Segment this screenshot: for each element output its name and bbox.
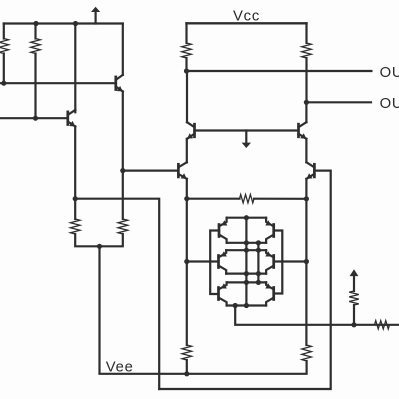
wire Q2 collector to rail <box>74 24 76 113</box>
wire Q5-Q6 base bus (y=130.5) <box>195 129 299 131</box>
wire QB base rail (right, x=282.3) <box>274 231 283 294</box>
wire R9 bottom corner to Vee rail <box>100 361 307 374</box>
wire block center vertical (x=246.4) <box>245 218 247 306</box>
node tail junction <box>97 244 102 249</box>
transistor Q3 <box>177 164 180 177</box>
resistor R7 (x=186.8) <box>182 345 192 360</box>
wire ML base to left branch (y=261.5) <box>187 260 219 262</box>
node junction OUT2 <box>184 68 189 73</box>
node junction block top center <box>244 215 249 220</box>
node junction row2 emitter right <box>256 248 261 253</box>
node junction bias row / R10 <box>351 322 356 327</box>
wire block bottom (collectors row3) <box>227 304 267 306</box>
resistor R8 (horizontal) <box>240 195 255 203</box>
wire block top (emitters row1) <box>227 217 267 219</box>
wire R7 bottom to Vee rail <box>186 360 188 374</box>
wire left loop (Q2 emitter to bottom loop) <box>75 199 159 389</box>
resistor R3 (x=75.2) <box>70 219 80 234</box>
resistor R4 (x=122.8) <box>118 219 128 234</box>
wire Q6 emitter to Q7 collector <box>305 139 307 163</box>
transistor Q1 <box>114 77 117 90</box>
transistor QC (middle-left of block) <box>217 256 220 268</box>
node junction R1/input wire <box>1 81 6 86</box>
wire Q3 base (y=170.6) <box>123 170 179 172</box>
wire emitters row2 (y=250.2) <box>226 249 266 251</box>
bias arrow (down) on base bus <box>245 131 247 143</box>
node junction row2 collector left <box>244 271 249 276</box>
resistor R6 (right load) <box>305 23 307 43</box>
node junction Q2 collector on rail <box>73 21 78 26</box>
node junction row3 emitter left <box>244 280 249 285</box>
resistor R1 (left, x=3.8) <box>3 24 5 39</box>
node junction Q1 emitter / Q3 base wire <box>120 168 125 173</box>
node junction row3 emitter right <box>256 280 261 285</box>
node junction R7 on Vee rail <box>184 371 189 376</box>
wire Q7 base to right loop <box>159 171 331 389</box>
transistor Q7 (mirrored) <box>313 164 316 177</box>
wire Vcc rail <box>187 22 307 24</box>
wire top-left supply rail <box>4 22 123 24</box>
wire Q2 emitter down <box>74 126 76 219</box>
transistor Q6 <box>297 124 300 137</box>
wire Q3 emitter down left branch <box>186 179 188 345</box>
wire QA base rail (left, x=210.2) <box>210 231 219 295</box>
wire OUT2 (y=71) <box>187 70 372 72</box>
wire Q1 emitter down <box>122 92 124 220</box>
wire R3 bottom to tail node <box>75 234 99 246</box>
svg-text:Vcc: Vcc <box>233 8 260 24</box>
node junction on left branch at y=261.5 <box>184 259 189 264</box>
wire block second vertical (x=258.4) <box>257 243 259 283</box>
wire R4 bottom to tail node <box>100 234 123 246</box>
power arrow (up) at R10 <box>350 269 359 276</box>
wire input A (y=83) <box>0 82 116 84</box>
power arrow (up) on top-left rail <box>94 12 96 24</box>
wire OUT1 (y=102) <box>306 101 371 103</box>
node junction R2 top on rail <box>33 21 38 26</box>
wire input B (y=118) <box>0 117 68 119</box>
node junction right branch y=261.5 <box>304 259 309 264</box>
transistor QD (middle-right of block) <box>272 256 275 268</box>
node junction right branch y=199 <box>304 196 309 201</box>
wire Q3 collector to Q5 emitter <box>186 139 188 163</box>
node junction block bottom center <box>244 303 249 308</box>
transistor QE (bottom-left of block) <box>217 288 220 300</box>
resistor R10 (x=354) <box>353 305 355 325</box>
node junction on left branch at y=199 <box>184 196 189 201</box>
transistor Q5 (mirrored) <box>193 124 196 137</box>
transistor Q2 <box>66 112 69 125</box>
wire collectors row2 (y=273.6) <box>226 273 266 275</box>
node junction row1 collector right <box>256 240 261 245</box>
wire emitters row3 (y=282.4) <box>227 281 267 283</box>
wire R8 row (y=198.7) left part <box>187 198 240 200</box>
wire R8 row right part <box>254 198 306 200</box>
wire Q6 collector riser <box>305 102 307 122</box>
node junction OUT1 <box>304 100 309 105</box>
node junction block bottom left <box>233 303 238 308</box>
transistor QB (top-right of block) <box>272 225 275 237</box>
wire Q5 collector riser to OUT node <box>186 71 188 122</box>
resistor R11 (horizontal, y=324.8) <box>375 321 390 329</box>
wire collectors row1 (y=242.8) <box>227 242 267 244</box>
wire block output to bias row <box>235 306 399 325</box>
svg-text:OUT: OUT <box>380 65 399 81</box>
node junction row2 emitter left <box>244 248 249 253</box>
wire Q1 collector riser <box>122 24 124 75</box>
wire tail node to Vee rail <box>98 246 100 372</box>
node junction Q2 emitter / loop wire <box>73 196 78 201</box>
transistor QF (bottom-right of block) <box>272 288 275 300</box>
wire MR base to right branch (y=261.5) <box>274 260 307 262</box>
transistor QA (top-left of block) <box>218 225 221 237</box>
svg-text:OUT: OUT <box>380 96 399 112</box>
node junction row1 collector left <box>244 240 249 245</box>
resistor R9 (x=306.6) <box>302 345 312 361</box>
svg-text:Vee: Vee <box>106 359 134 375</box>
resistor R2 (x=35.5) <box>34 24 36 39</box>
node junction R2 bottom on input wire <box>33 116 38 121</box>
resistor R5 (left load) <box>185 23 187 43</box>
node junction row2 collector right <box>256 271 261 276</box>
wire Q7 emitter down right branch <box>305 179 307 345</box>
